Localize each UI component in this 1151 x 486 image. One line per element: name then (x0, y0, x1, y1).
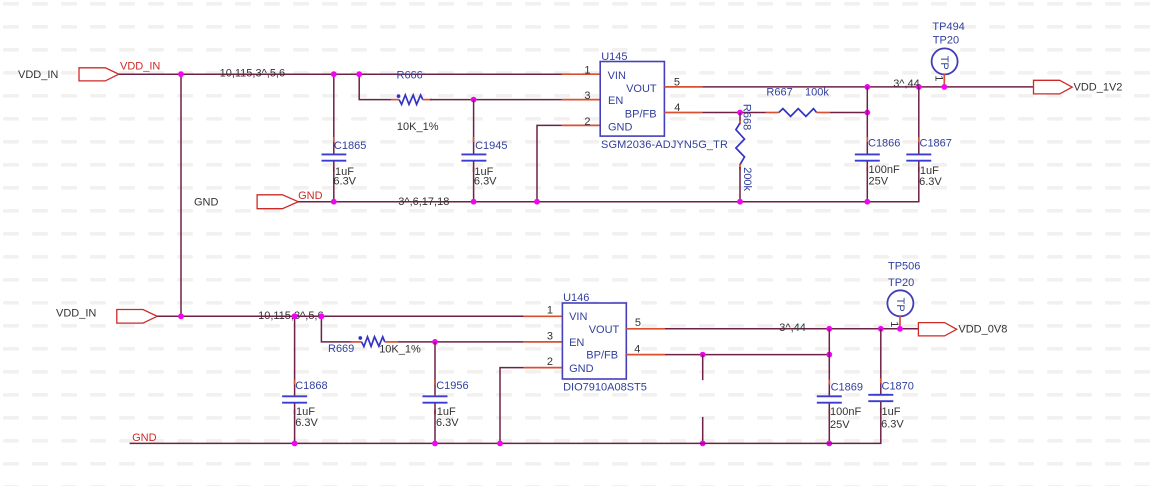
pin number U145.1 (584, 64, 590, 76)
pin number U146.5 (635, 317, 641, 329)
capacitor C1866 red pin tick bottom (866, 167, 868, 172)
svg-text:R666: R666 (397, 69, 423, 81)
wire C1956 branch lower to GND rail (434, 404, 436, 444)
svg-text:C1870: C1870 (882, 381, 914, 393)
wire R668 upper lead (739, 113, 741, 122)
capacitor C1869 red pin tick bottom (828, 410, 830, 415)
net text 3^,44 (bottom VOUT rail) (779, 322, 806, 334)
wire EN row to pin3 (430, 99, 562, 101)
net text 3^,6,17,18 (top GND rail) (398, 196, 449, 208)
svg-text:VDD_1V2: VDD_1V2 (1074, 81, 1123, 93)
value 10K_1% (R666) (397, 121, 439, 133)
svg-text:5: 5 (674, 76, 680, 88)
capacitor C1866 plates (855, 154, 880, 160)
svg-text:C1868: C1868 (295, 380, 327, 392)
wire C1945 branch lower to GND rail (473, 162, 475, 202)
pin number U146.4 (634, 344, 640, 356)
svg-text:1uF: 1uF (296, 406, 315, 418)
wire C1866 branch lower to GND rail (866, 162, 868, 202)
capacitor C1865 plates (322, 154, 347, 160)
node junction (294.6,316.3) repaint over net text (292, 313, 298, 319)
net text 3^,44 (top VOUT rail) (893, 78, 920, 90)
value 1uF (C1867) (920, 165, 939, 177)
pin number 1 (TP494, rotated) (932, 75, 944, 81)
wire C1869 branch upper (828, 329, 830, 396)
svg-text:TP506: TP506 (888, 261, 920, 273)
wire C1867 branch upper (918, 87, 920, 154)
node junction (181,316.3) (178, 313, 184, 319)
testpoint TP506 circle (887, 290, 913, 316)
node junction (740,112.5) R668 top (737, 110, 743, 116)
svg-text:3^,44: 3^,44 (779, 322, 806, 334)
pin U145.5 stub VOUT (664, 86, 702, 88)
part number DIO7910A08ST5 (563, 381, 647, 393)
value 6.3V (C1867) (919, 176, 942, 188)
svg-text:100nF: 100nF (830, 406, 861, 418)
pin name VOUT (U145) (626, 83, 657, 95)
testpoint TP494 red pin (943, 74, 945, 87)
capacitor C1956 plates (423, 396, 448, 402)
node junction (294.6,316.3) (292, 313, 298, 319)
svg-text:C1869: C1869 (831, 382, 863, 394)
wire C1867 branch lower to GND rail corner (918, 162, 920, 203)
resistor R667 right red pin (817, 112, 830, 114)
capacitor C1870 plates (868, 395, 893, 401)
node junction (473.6,201.7) (471, 199, 477, 205)
label TP506 refdes (888, 261, 920, 273)
label TP494 refdes (932, 21, 964, 33)
node junction (359.2,74.2) (356, 71, 362, 77)
wire drop from VDD rail to R666 row (359, 74, 391, 99)
node junction (900,328.8) (897, 326, 903, 332)
pin number U146.2 (547, 356, 553, 368)
label C1867 refdes (920, 138, 952, 150)
pin U146.4 stub BP/FB (626, 354, 665, 356)
capacitor C1870 red pin tick top (880, 378, 882, 383)
pin U146.3 stub (524, 341, 563, 343)
wire BP/FB row to R667 (702, 112, 766, 114)
svg-text:R669: R669 (328, 343, 354, 355)
value 100k (R667) (805, 87, 829, 99)
svg-text:100nF: 100nF (869, 164, 900, 176)
label R666 refdes (397, 69, 423, 81)
label VDD_IN (black, top left) (18, 69, 58, 81)
svg-text:5: 5 (635, 317, 641, 329)
svg-text:10,115,3^,5,6: 10,115,3^,5,6 (258, 310, 324, 322)
svg-text:6.3V: 6.3V (881, 419, 904, 431)
svg-text:3^,44: 3^,44 (893, 78, 920, 90)
svg-text:R667: R667 (766, 87, 792, 99)
testpoint TP506 red pin (899, 316, 901, 329)
capacitor C1865 red pin tick bottom (333, 167, 335, 172)
value 1uF (C1956) (437, 406, 456, 418)
resistor R669 zigzag 10K_1% (362, 337, 385, 347)
svg-text:SGM2036-ADJYN5G_TR: SGM2036-ADJYN5G_TR (601, 139, 728, 151)
label C1956 refdes (436, 380, 468, 392)
resistor R666 left red pin (391, 99, 399, 101)
svg-text:TP494: TP494 (932, 21, 964, 33)
capacitor C1867 red pin tick bottom (918, 167, 920, 172)
node junction (500,443.4) (497, 441, 503, 447)
wire C1865 branch upper (333, 74, 335, 153)
value 6.3V (C1870) (881, 419, 904, 431)
value 25V (C1869) (830, 419, 850, 431)
value 1uF (C1945) (474, 166, 493, 178)
svg-text:EN: EN (608, 95, 623, 107)
node junction (867.3,201.7) (864, 199, 870, 205)
value 100nF (C1869) (830, 406, 861, 418)
svg-text:3: 3 (547, 331, 553, 343)
capacitor C1868 red pin tick top (294, 380, 296, 385)
resistor R669 left red pin (350, 341, 362, 343)
svg-text:VDD_IN: VDD_IN (56, 308, 96, 320)
wire C1945 branch upper (473, 100, 475, 154)
svg-text:2: 2 (547, 356, 553, 368)
port VDD_IN (bottom input) (117, 310, 157, 324)
wire stub above GND rail (hidden part lower lead) (702, 417, 704, 444)
port VDD_0V8 (output) (918, 323, 956, 336)
pin number U145.2 (584, 116, 590, 128)
value 1uF (C1865) (335, 166, 354, 178)
pin name EN (U145) (608, 95, 623, 107)
node junction (867.3,86.9) (864, 84, 870, 90)
value 25V (C1866) (869, 175, 889, 187)
wire GND rail (top circuit, y=201.7) (298, 201, 919, 203)
node junction (880.8,328.8) C1870 top (878, 326, 884, 332)
node junction (829.3,443.4) (826, 441, 832, 447)
svg-text:10K_1%: 10K_1% (379, 343, 421, 355)
pin number U145.3 (584, 90, 590, 102)
label C1945 refdes (475, 140, 507, 152)
svg-text:TP: TP (894, 298, 906, 312)
svg-text:100k: 100k (805, 87, 829, 99)
node junction (333.8,201.7) (331, 199, 337, 205)
capacitor C1956 red pin tick top (434, 380, 436, 385)
net text 10,115,3^,5,6 (top rail) (220, 67, 286, 79)
capacitor C1945 plates (461, 154, 486, 160)
svg-text:6.3V: 6.3V (474, 176, 497, 188)
svg-text:10,115,3^,5,6: 10,115,3^,5,6 (220, 67, 286, 79)
value 6.3V (C1865) (333, 176, 356, 188)
wire drop from rail to R669 row (321, 316, 352, 342)
wire R667 to C1866 column (830, 112, 868, 114)
port VDD_1V2 (output) (1034, 80, 1073, 94)
pin number U145.4 (674, 102, 680, 114)
node junction (702.7,443.4) (700, 441, 706, 447)
net label GND (red, bottom rail) (132, 432, 157, 444)
label VDD_1V2 (black) (1074, 81, 1123, 93)
svg-text:VIN: VIN (608, 70, 626, 82)
resistor R666 zigzag 10K_1% (399, 95, 423, 104)
node junction (181,74.2) (178, 71, 184, 77)
wire vertical x=181 joining top and bottom VDD_IN rails (180, 74, 182, 316)
label GND (black, mid left) (194, 197, 219, 209)
label C1866 refdes (868, 138, 900, 150)
node junction (321.4,316.3) (319, 313, 325, 319)
svg-text:6.3V: 6.3V (295, 417, 318, 429)
label C1865 refdes (334, 140, 366, 152)
svg-text:25V: 25V (830, 419, 850, 431)
value 6.3V (C1945) (474, 176, 497, 188)
node junction (702.7,354.6) (700, 352, 706, 358)
svg-text:C1867: C1867 (920, 138, 952, 150)
svg-text:6.3V: 6.3V (333, 176, 356, 188)
svg-text:VDD_0V8: VDD_0V8 (958, 324, 1007, 336)
svg-text:VOUT: VOUT (626, 83, 657, 95)
svg-text:VOUT: VOUT (589, 324, 620, 336)
svg-text:BP/FB: BP/FB (625, 109, 657, 121)
label U145 refdes (601, 51, 627, 63)
svg-text:GND: GND (194, 197, 219, 209)
node junction (944.3,86.9) (941, 84, 947, 90)
svg-text:GND: GND (298, 190, 323, 202)
node junction (537,201.7) (534, 199, 540, 205)
wire C1869 branch lower to GND rail (828, 404, 830, 444)
svg-text:GND: GND (569, 363, 594, 375)
svg-text:TP20: TP20 (933, 35, 959, 47)
wire VOUT rail (net VDD_0V8, y=328.8) (665, 328, 918, 330)
node junction (829.3,354.6) (826, 352, 832, 358)
svg-text:C1865: C1865 (334, 140, 366, 152)
svg-text:3^,6,17,18: 3^,6,17,18 (398, 196, 449, 208)
pin name EN (U146) (569, 337, 584, 349)
wire C1865 branch lower to GND rail (333, 162, 335, 202)
value 6.3V (C1868) (295, 417, 318, 429)
wire C1868 branch upper (294, 316, 296, 395)
svg-text:4: 4 (634, 344, 640, 356)
svg-text:4: 4 (674, 102, 680, 114)
part number TP20 (TP494) (933, 35, 959, 47)
capacitor C1945 red pin tick bottom (473, 167, 475, 172)
svg-text:TP20: TP20 (888, 277, 914, 289)
net text 10,115,3^,5,6 (bottom rail) (258, 310, 324, 322)
capacitor C1869 plates (817, 396, 842, 402)
node junction (321.4,316.3) repaint over net text (319, 313, 325, 319)
label C1868 refdes (295, 380, 327, 392)
wire VDD_IN rail (bottom, y=316.3) (157, 315, 524, 317)
wire C1956 branch upper (434, 342, 436, 396)
svg-text:C1945: C1945 (475, 140, 507, 152)
wire GND pin2 path (up from GND rail then right) (537, 125, 562, 201)
svg-text:1: 1 (584, 64, 590, 76)
node junction (829.3,328.8) (826, 326, 832, 332)
svg-text:DIO7910A08ST5: DIO7910A08ST5 (563, 381, 647, 393)
wire stub below BP/FB junction (hidden part upper lead) (702, 355, 704, 381)
pin name VIN (U146) (569, 311, 587, 323)
svg-text:1: 1 (932, 75, 944, 81)
label R669 refdes (328, 343, 354, 355)
wire GND pin2 path (bottom, up from rail then right) (500, 368, 524, 444)
node junction (867.3,112.5) (864, 110, 870, 116)
pin name GND (U145) (608, 122, 633, 134)
svg-text:VIN: VIN (569, 311, 587, 323)
pin name VOUT (U146) (589, 324, 620, 336)
capacitor C1866 red pin tick top (866, 137, 868, 142)
svg-text:1uF: 1uF (437, 406, 456, 418)
node junction (435,443.4) (432, 441, 438, 447)
wire GND rail (bottom, y=443.4) (130, 442, 881, 444)
capacitor C1865 red pin tick top (333, 137, 335, 142)
value 10K_1% (R669) (379, 343, 421, 355)
node junction (333.8,74.2) (331, 71, 337, 77)
svg-text:GND: GND (132, 432, 157, 444)
svg-text:2: 2 (584, 116, 590, 128)
wire EN row to pin3 (bottom) (398, 341, 524, 343)
svg-text:1uF: 1uF (882, 406, 901, 418)
op-amp U145 body SGM2036 (600, 62, 664, 137)
svg-text:U146: U146 (563, 292, 589, 304)
wire C1866 branch upper (866, 87, 868, 154)
resistor R668 red pin tick top (739, 121, 741, 125)
label U146 refdes (563, 292, 589, 304)
resistor R666 right red pin (423, 99, 432, 101)
value 100nF (C1866) (869, 164, 900, 176)
svg-text:25V: 25V (869, 175, 889, 187)
value 6.3V (C1956) (436, 417, 459, 429)
pin number U146.3 (547, 331, 553, 343)
node junction (473.6,99.6) C1945 top (471, 97, 477, 103)
pin number 1 (TP506, rotated) (888, 321, 900, 327)
svg-text:EN: EN (569, 337, 584, 349)
wire C1868 branch lower to GND rail (294, 404, 296, 444)
resistor R667 left red pin (766, 112, 779, 114)
svg-text:C1956: C1956 (436, 380, 468, 392)
pin U145.1 stub (562, 73, 600, 75)
port VDD_IN (top input) (79, 68, 119, 81)
svg-text:200k: 200k (741, 167, 753, 191)
net label GND (red, at top GND port) (298, 190, 323, 202)
node junction (294.6,443.4) (292, 441, 298, 447)
capacitor C1956 red pin tick bottom (434, 410, 436, 415)
resistor R669 polarity dot (358, 336, 362, 340)
node junction (740,201.7) (737, 199, 743, 205)
pin U145.4 stub BP/FB (664, 112, 702, 114)
pin name GND (U146) (569, 363, 594, 375)
pin U146.5 stub VOUT (626, 328, 665, 330)
svg-text:VDD_IN: VDD_IN (120, 61, 160, 73)
capacitor C1868 plates (282, 396, 307, 402)
net label VDD_IN (red, on top rail) (120, 61, 160, 73)
pin name VIN (U145) (608, 70, 626, 82)
capacitor C1868 red pin tick bottom (294, 410, 296, 415)
label C1870 refdes (882, 381, 914, 393)
op-amp U146 body DIO7910 (562, 303, 626, 379)
svg-text:1: 1 (888, 321, 900, 327)
svg-text:6.3V: 6.3V (436, 417, 459, 429)
label R668 refdes (rotated) (740, 104, 752, 130)
pin name TP (TP506, rotated inside circle) (894, 298, 906, 312)
svg-text:U145: U145 (601, 51, 627, 63)
label VDD_IN (black, bottom left) (56, 308, 96, 320)
pin U145.2 stub (562, 124, 600, 126)
svg-text:VDD_IN: VDD_IN (18, 69, 58, 81)
capacitor C1870 red pin tick bottom (880, 408, 882, 413)
svg-text:R668: R668 (740, 104, 752, 130)
wire R668 lower lead to GND rail (739, 167, 741, 202)
svg-text:3: 3 (584, 90, 590, 102)
node junction (435,341.9) C1956 top (432, 339, 438, 345)
wire BP/FB row (bottom) (665, 354, 829, 356)
label VDD_0V8 (black) (958, 324, 1007, 336)
resistor R668 red pin tick bottom (739, 164, 741, 170)
label C1869 refdes (831, 382, 863, 394)
pin U146.1 stub (524, 315, 563, 317)
svg-text:BP/FB: BP/FB (586, 350, 618, 362)
wire C1870 branch lower to GND rail corner (880, 402, 882, 444)
capacitor C1945 red pin tick top (473, 137, 475, 142)
pin number U145.5 (674, 76, 680, 88)
testpoint TP494 circle (932, 48, 958, 74)
value 200k (R668, rotated) (741, 167, 753, 191)
svg-text:TP: TP (938, 56, 950, 70)
capacitor C1869 red pin tick top (828, 380, 830, 385)
svg-text:6.3V: 6.3V (919, 176, 942, 188)
pin name BP/FB (U145) (625, 109, 657, 121)
part number SGM2036-ADJYN5G_TR (601, 139, 728, 151)
capacitor C1867 plates (906, 154, 931, 160)
resistor R667 zigzag 100k (779, 109, 817, 117)
svg-text:C1866: C1866 (868, 138, 900, 150)
pin U146.2 stub (524, 367, 563, 369)
part number TP20 (TP506) (888, 277, 914, 289)
pin number U146.1 (547, 305, 553, 317)
svg-text:GND: GND (608, 122, 633, 134)
value 1uF (C1870) (882, 406, 901, 418)
pin U145.3 stub (562, 99, 600, 101)
node junction (918.8,86.9) C1867 top (916, 84, 922, 90)
svg-text:10K_1%: 10K_1% (397, 121, 439, 133)
pin name TP (TP494, rotated inside circle) (938, 56, 950, 70)
label R667 refdes (766, 87, 792, 99)
wire VDD_IN rail (net VDD_IN, y=74.2) (119, 73, 562, 75)
wire VOUT rail (net VDD_1V2, y=86.9) (702, 86, 1033, 88)
capacitor C1867 red pin tick top (918, 137, 920, 142)
svg-text:1: 1 (547, 305, 553, 317)
pin name BP/FB (U146) (586, 350, 618, 362)
resistor R666 polarity dot (397, 94, 401, 98)
port GND (top) (257, 195, 298, 209)
wire C1870 branch upper (880, 329, 882, 394)
resistor R669 right red pin (385, 341, 398, 343)
value 1uF (C1868) (296, 406, 315, 418)
resistor R668 zigzag 200k (vertical) (736, 123, 745, 165)
